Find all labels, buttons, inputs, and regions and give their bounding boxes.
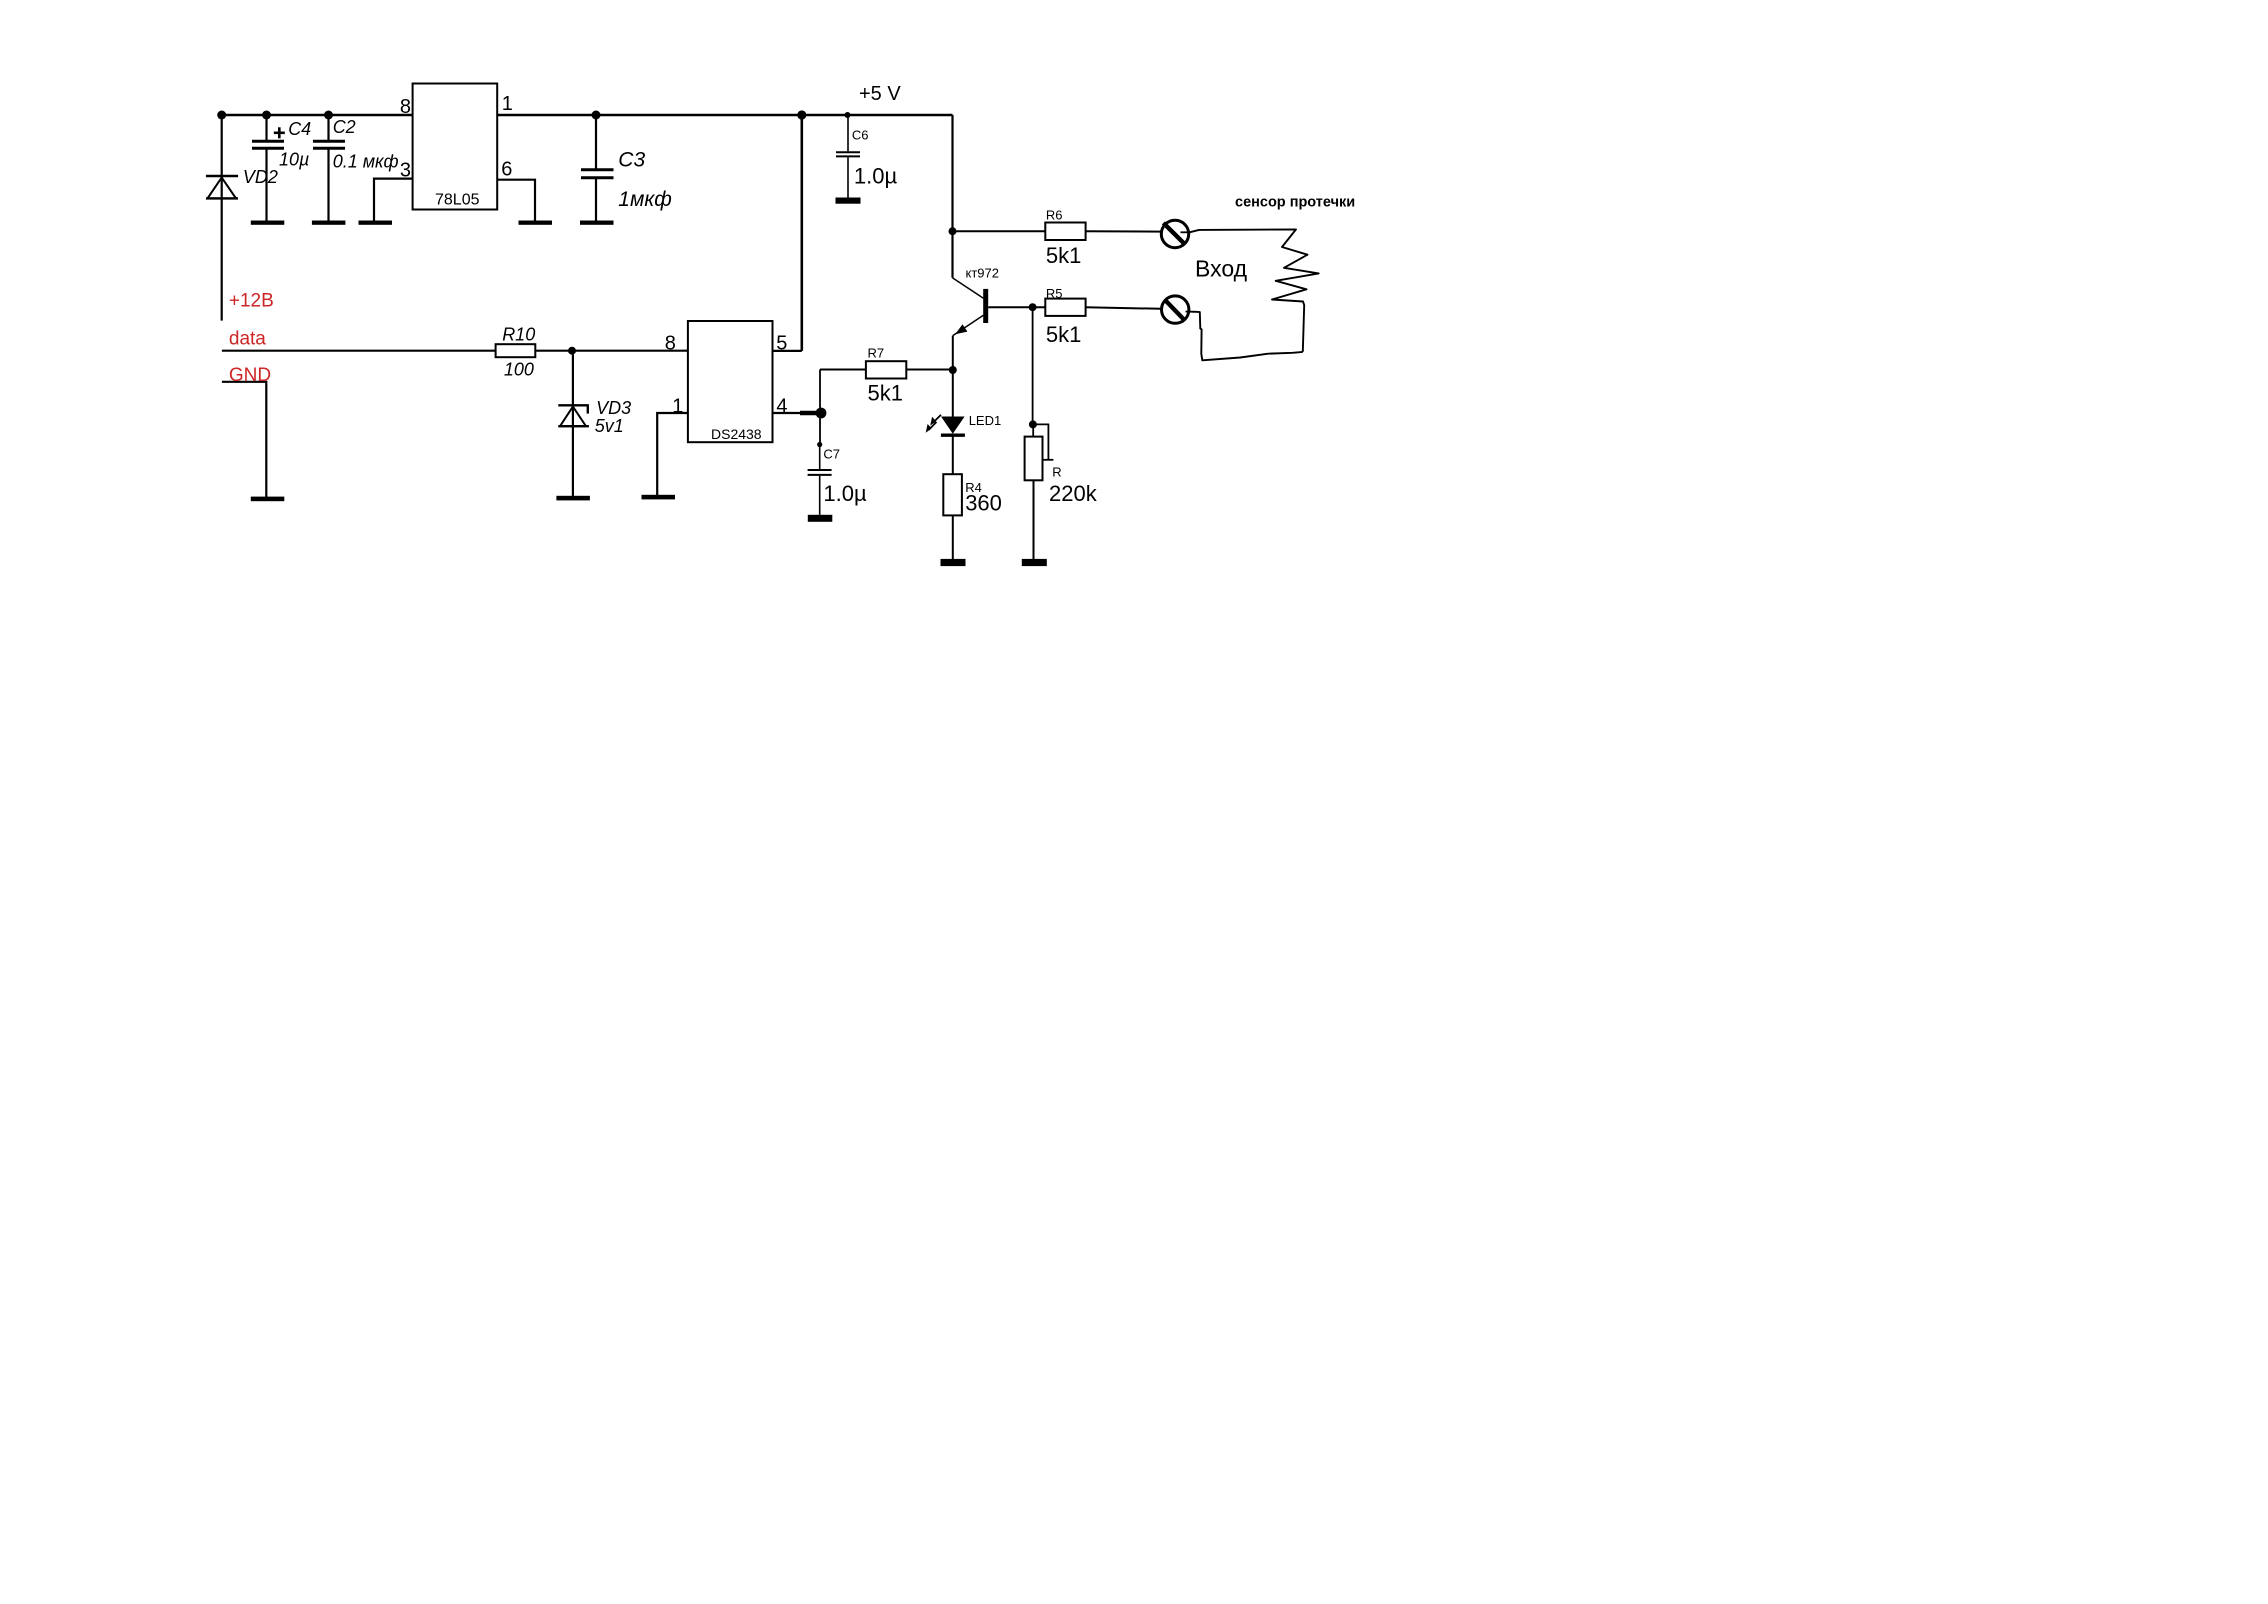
svg-text:сенсор протечки: сенсор протечки	[1235, 195, 1355, 211]
svg-text:C3: C3	[618, 149, 645, 172]
svg-text:data: data	[229, 329, 266, 350]
svg-text:10µ: 10µ	[279, 150, 309, 170]
svg-text:1.0µ: 1.0µ	[854, 164, 898, 189]
svg-text:VD2: VD2	[243, 167, 278, 187]
svg-text:5k1: 5k1	[1046, 243, 1081, 268]
svg-text:+12B: +12B	[229, 291, 274, 312]
svg-text:360: 360	[965, 491, 1002, 516]
svg-text:8: 8	[400, 96, 411, 118]
svg-text:C4: C4	[288, 119, 311, 139]
svg-text:5v1: 5v1	[595, 416, 624, 436]
svg-text:3: 3	[400, 160, 411, 182]
svg-text:220k: 220k	[1049, 481, 1098, 506]
svg-text:1: 1	[502, 93, 513, 115]
svg-text:кт972: кт972	[966, 266, 999, 281]
svg-text:0.1 мкф: 0.1 мкф	[333, 152, 399, 172]
svg-text:100: 100	[504, 360, 534, 380]
svg-text:Вход: Вход	[1195, 256, 1248, 282]
svg-text:5k1: 5k1	[1046, 322, 1081, 347]
svg-text:R6: R6	[1046, 207, 1063, 222]
svg-text:8: 8	[665, 332, 676, 354]
svg-text:R7: R7	[868, 346, 885, 361]
svg-text:DS2438: DS2438	[711, 426, 762, 442]
svg-text:C7: C7	[823, 447, 840, 462]
svg-text:+5 V: +5 V	[859, 83, 901, 105]
svg-text:5k1: 5k1	[868, 381, 903, 406]
svg-text:1: 1	[672, 395, 683, 417]
svg-text:GND: GND	[229, 365, 271, 386]
svg-text:R10: R10	[502, 325, 535, 345]
svg-text:R5: R5	[1046, 286, 1063, 301]
svg-text:LED1: LED1	[969, 413, 1002, 428]
svg-text:6: 6	[501, 159, 512, 181]
svg-text:5: 5	[776, 332, 787, 354]
svg-text:1.0µ: 1.0µ	[823, 481, 867, 506]
svg-text:4: 4	[776, 395, 787, 417]
svg-text:C6: C6	[852, 128, 869, 143]
svg-text:VD3: VD3	[596, 398, 631, 418]
svg-text:C2: C2	[333, 117, 356, 137]
svg-text:1мкф: 1мкф	[618, 188, 672, 211]
svg-text:78L05: 78L05	[435, 192, 480, 209]
svg-text:R: R	[1052, 465, 1061, 480]
